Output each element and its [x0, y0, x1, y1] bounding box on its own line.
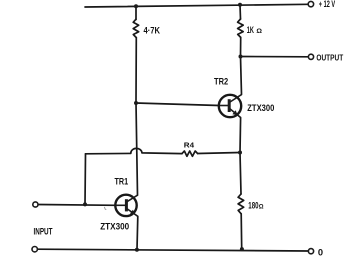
svg-text:INPUT: INPUT — [34, 227, 53, 238]
svg-text:R4: R4 — [184, 141, 195, 150]
svg-text:Ω: Ω — [259, 205, 264, 211]
svg-text:ZTX300: ZTX300 — [100, 221, 129, 231]
scan artifact tick — [104, 207, 106, 210]
node input / stub — [83, 202, 87, 206]
wire right branch upper — [239, 5, 242, 19]
transistor TR2 ZTX300 — [219, 95, 242, 118]
wire 180 ohm to bottom rail — [240, 214, 243, 249]
wire R4 line with hop over left branch — [86, 148, 183, 153]
resistor 180 ohm — [238, 194, 244, 214]
terminal 0 bottom-left — [32, 247, 37, 252]
svg-text:OUTPUT: OUTPUT — [316, 52, 343, 62]
wire right branch to output node — [240, 37, 242, 56]
wire R4 node down to 180 ohm — [240, 153, 241, 195]
wire left stub TR1 base up-link — [84, 154, 87, 205]
node TR2 base / left branch — [134, 101, 138, 105]
wire output line — [241, 56, 309, 58]
wire input line — [38, 204, 115, 207]
node top rail / 1K — [238, 3, 242, 7]
node output / 1K — [239, 55, 243, 59]
svg-text:Ω: Ω — [256, 28, 262, 35]
svg-text:1K: 1K — [247, 25, 254, 36]
wire left branch upper — [135, 6, 137, 19]
wire TR1 emitter down — [136, 216, 139, 249]
svg-text:180: 180 — [248, 201, 258, 211]
wire TR2 emitter to R4 node — [239, 118, 242, 153]
svg-text:TR2: TR2 — [214, 76, 228, 86]
node R4 / right branch — [238, 151, 242, 155]
wire TR2 base line — [136, 103, 219, 106]
wire bottom rail — [38, 249, 309, 251]
svg-text:0: 0 — [318, 248, 323, 259]
node top rail / 4.7K — [134, 4, 138, 8]
terminal OUTPUT — [308, 54, 313, 59]
resistor 4.7K — [133, 19, 139, 37]
node bottom rail / TR1 emitter — [135, 248, 139, 252]
svg-text:TR1: TR1 — [115, 177, 129, 187]
wire R4 right to node — [198, 153, 240, 154]
terminal INPUT — [33, 202, 38, 207]
terminal 0 bottom-right — [308, 249, 313, 254]
transistor TR1 ZTX300 — [115, 195, 138, 217]
resistor 1K — [238, 19, 244, 37]
wire right branch to TR2 collector — [241, 57, 242, 95]
wire top rail +12V — [85, 4, 309, 7]
terminal +12V — [308, 1, 313, 6]
svg-text:ZTX300: ZTX300 — [247, 103, 274, 113]
svg-text:+ 12 V: + 12 V — [319, 0, 335, 9]
resistor R4 — [182, 151, 198, 156]
wire left branch middle — [136, 38, 138, 196]
svg-text:4·7K: 4·7K — [144, 26, 161, 37]
node bottom rail / 180 ohm — [240, 247, 244, 251]
